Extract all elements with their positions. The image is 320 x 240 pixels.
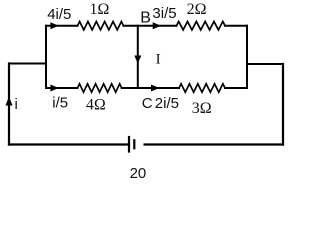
svg-text:2Ω: 2Ω (187, 1, 207, 18)
battery short plate (133, 140, 135, 148)
wire top rail left segment (46, 25, 78, 27)
svg-text:I: I (156, 52, 161, 68)
resistor 2ohm (177, 22, 226, 30)
resistor 1ohm (78, 22, 124, 30)
svg-text:4Ω: 4Ω (86, 97, 106, 114)
arrow current i/5 on middle rail (50, 85, 58, 92)
wire left inner vertical (45, 26, 47, 88)
wire right outer vertical (282, 64, 284, 145)
svg-text:2i/5: 2i/5 (155, 95, 179, 112)
arrow current I downward on B-C wire (134, 56, 141, 64)
arrow current 2i/5 on middle rail after node C (151, 85, 159, 92)
arrow current 4i/5 on top rail (50, 22, 58, 29)
wire left outer vertical (8, 64, 10, 145)
svg-text:i/5: i/5 (52, 95, 68, 112)
svg-text:4i/5: 4i/5 (47, 6, 71, 23)
wire top rail right segment (225, 25, 247, 27)
wire bottom rail right of battery (145, 143, 283, 145)
wire node B to node C vertical (137, 26, 139, 88)
svg-text:i: i (15, 96, 18, 113)
wire left stub (9, 63, 46, 65)
battery long plate (128, 137, 130, 152)
wire right stub (247, 63, 283, 65)
wire bottom rail left of battery (9, 143, 129, 145)
arrow current 3i/5 on top rail after node B (153, 22, 161, 29)
wire middle rail right segment (225, 87, 247, 89)
resistor 3ohm (179, 84, 225, 92)
svg-text:3Ω: 3Ω (192, 100, 212, 117)
resistor 4ohm (78, 84, 122, 92)
arrow current i upward on left outer wire (6, 97, 13, 106)
wire middle rail left segment (46, 87, 78, 89)
svg-text:3i/5: 3i/5 (152, 5, 176, 22)
wire right inner vertical (246, 26, 248, 88)
wire middle rail middle segment (node C junction) (122, 87, 179, 89)
wire top rail middle segment (node B junction) (124, 25, 177, 27)
svg-text:20: 20 (130, 165, 147, 182)
svg-text:1Ω: 1Ω (90, 1, 110, 18)
svg-text:B: B (140, 9, 151, 26)
svg-text:C: C (142, 95, 153, 112)
